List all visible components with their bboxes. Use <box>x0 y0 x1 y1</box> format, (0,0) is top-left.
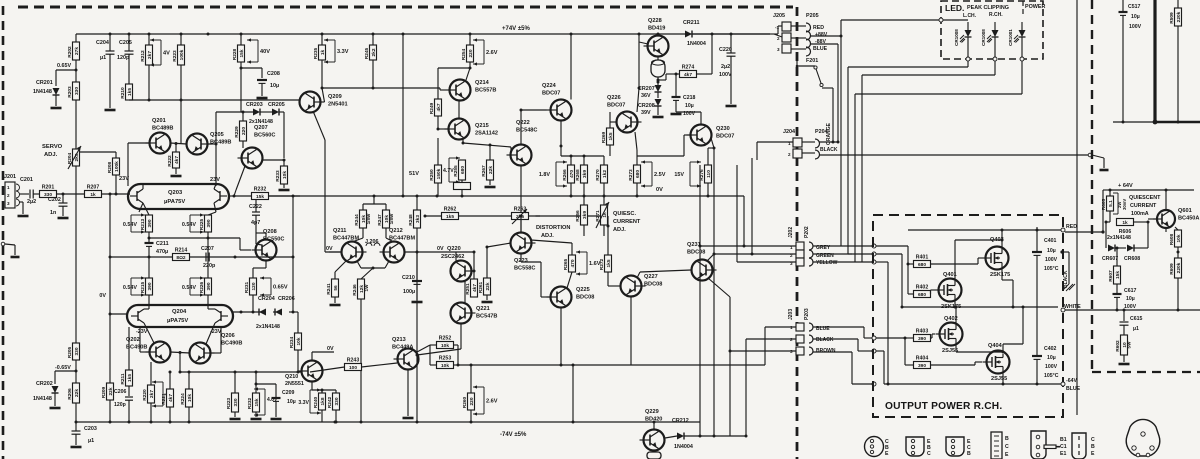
svg-text:220p: 220p <box>203 263 216 269</box>
svg-text:BC548C: BC548C <box>516 128 537 134</box>
wire <box>1165 229 1167 233</box>
junction <box>607 225 610 228</box>
resistor R212 <box>146 45 153 65</box>
wire <box>62 206 64 216</box>
svg-text:P205: P205 <box>806 13 819 19</box>
svg-text:C615: C615 <box>1130 316 1143 322</box>
transistor Q201 <box>150 133 171 154</box>
wire <box>1177 278 1179 310</box>
0V bus wire <box>269 195 745 197</box>
wire <box>109 54 111 108</box>
transistor Q213 <box>398 349 419 370</box>
svg-text:2µ2: 2µ2 <box>721 64 730 70</box>
svg-text:ADJ.: ADJ. <box>541 233 554 239</box>
chassis ground symbol <box>1063 284 1075 291</box>
capacitor C401 symbol <box>1032 251 1042 253</box>
svg-text:10µ: 10µ <box>1047 248 1056 254</box>
wire <box>486 295 488 300</box>
svg-text:R.CH.: R.CH. <box>989 12 1003 18</box>
wire <box>373 196 375 204</box>
wire <box>489 145 491 160</box>
capacitor C206 symbol <box>125 396 133 398</box>
resistor R262 <box>442 213 459 220</box>
svg-text:B: B <box>967 451 971 457</box>
wire <box>283 112 285 158</box>
resistor R225 <box>205 215 212 232</box>
svg-text:10µ: 10µ <box>685 103 694 109</box>
junction <box>75 421 78 424</box>
svg-text:2.6V: 2.6V <box>486 399 498 405</box>
svg-text:3k9: 3k9 <box>582 211 588 219</box>
junction <box>743 245 746 248</box>
svg-text:0.65V: 0.65V <box>57 63 71 69</box>
junction <box>180 33 183 36</box>
capacitor C402 symbol <box>1032 355 1042 357</box>
wire <box>335 261 346 272</box>
base wire <box>110 313 127 315</box>
svg-text:BLUE: BLUE <box>813 46 828 52</box>
wire <box>570 156 572 165</box>
WHITE output wire <box>902 306 1058 308</box>
wire <box>265 233 267 240</box>
svg-text:2x1N4148: 2x1N4148 <box>1107 235 1131 241</box>
collector wire <box>236 166 245 190</box>
junction <box>707 195 710 198</box>
junction <box>252 311 255 314</box>
svg-text:Q222: Q222 <box>516 120 530 126</box>
base wire <box>640 270 691 272</box>
wire <box>255 412 257 417</box>
dual transistor Q204 uPA75V <box>127 305 233 327</box>
wire <box>310 367 345 372</box>
ground <box>279 189 290 192</box>
resistor R246 <box>358 279 365 299</box>
svg-text:R251: R251 <box>465 283 471 295</box>
resistor R260 <box>468 393 475 410</box>
wire <box>608 285 621 287</box>
svg-text:BDC07: BDC07 <box>716 134 734 140</box>
wire <box>802 141 815 143</box>
svg-text:0V: 0V <box>326 246 333 252</box>
wire <box>609 112 611 128</box>
junction <box>461 195 464 198</box>
junction <box>109 313 112 316</box>
wire <box>1122 15 1124 122</box>
resistor R268 <box>581 165 588 183</box>
ground <box>50 407 61 410</box>
junction <box>729 350 732 353</box>
diode CR607 <box>1108 245 1115 252</box>
transistor Q230 <box>691 125 712 146</box>
svg-text:390: 390 <box>147 282 153 290</box>
voltage 40V <box>257 40 259 62</box>
wire <box>208 308 215 310</box>
gate wire Q404 <box>931 364 976 366</box>
svg-text:R256: R256 <box>575 210 581 222</box>
junction <box>240 67 243 70</box>
svg-text:R206: R206 <box>67 388 73 400</box>
svg-text:3.3V: 3.3V <box>298 400 309 406</box>
transistor Q205 <box>187 134 208 155</box>
transistor Q228 <box>648 36 669 57</box>
potentiometer R271 <box>601 205 608 225</box>
wire <box>639 42 648 44</box>
svg-text:R209: R209 <box>101 386 107 398</box>
svg-text:2SK175: 2SK175 <box>990 272 1010 278</box>
svg-text:Q212: Q212 <box>389 228 403 234</box>
resistor R249 <box>435 99 442 116</box>
potentiometer R263 <box>512 213 529 220</box>
svg-text:E: E <box>1091 451 1095 457</box>
wire <box>583 156 585 165</box>
svg-text:390: 390 <box>918 363 926 369</box>
svg-text:POWER: POWER <box>1025 4 1045 10</box>
junction <box>1036 229 1039 232</box>
svg-text:C: C <box>1005 444 1009 450</box>
long vertical wire <box>1076 0 1078 415</box>
svg-text:2k7: 2k7 <box>149 390 155 398</box>
junction <box>699 435 702 438</box>
junction <box>148 237 151 240</box>
wire <box>256 244 262 245</box>
junction <box>207 237 210 240</box>
resistor R215 <box>146 278 153 295</box>
GREY gate feed <box>876 245 908 247</box>
junction <box>128 421 131 424</box>
svg-text:4k7: 4k7 <box>174 156 180 164</box>
junction <box>638 33 641 36</box>
wire <box>75 166 77 343</box>
wire <box>470 410 472 422</box>
package 2 <box>906 437 924 456</box>
capacitor C401 <box>1036 227 1038 251</box>
svg-text:3.3V: 3.3V <box>337 49 349 55</box>
capacitor C220 symbol <box>727 52 736 54</box>
svg-text:1/8W: 1/8W <box>389 213 394 224</box>
wire <box>603 225 605 236</box>
right channel dashed border <box>1091 0 1093 372</box>
svg-text:CR211: CR211 <box>683 20 699 26</box>
wire <box>324 140 326 252</box>
capacitor C615 <box>1123 310 1125 321</box>
svg-text:CR204: CR204 <box>258 296 275 302</box>
voltage 0.54V <box>130 215 132 232</box>
v <box>309 390 311 413</box>
svg-text:10µ: 10µ <box>270 83 279 89</box>
junction <box>751 253 754 256</box>
junction <box>699 245 702 248</box>
wire <box>311 382 313 391</box>
svg-text:C617: C617 <box>1124 288 1137 294</box>
gate wire Q403 <box>931 263 979 265</box>
wire <box>261 68 263 78</box>
capacitor C210 symbol <box>412 280 422 282</box>
resistor R223 <box>178 45 185 65</box>
svg-text:J202: J202 <box>788 227 794 238</box>
svg-text:Q204: Q204 <box>172 309 187 315</box>
package 5 <box>1031 431 1046 459</box>
wire <box>240 62 242 112</box>
wire <box>711 138 714 148</box>
junction <box>955 306 958 309</box>
wire <box>33 193 38 195</box>
transistor Q231 <box>692 260 713 281</box>
wire <box>229 195 234 197</box>
top board dashed border <box>18 6 793 9</box>
wire <box>692 33 770 35</box>
svg-text:105°C: 105°C <box>1044 266 1059 272</box>
junction <box>713 435 716 438</box>
resistor R232 <box>252 193 269 200</box>
junction <box>1177 251 1180 254</box>
wire <box>404 251 474 253</box>
svg-text:220k: 220k <box>1176 262 1182 273</box>
svg-text:2N5551: 2N5551 <box>285 381 304 387</box>
wire <box>321 60 323 88</box>
svg-text:CR607: CR607 <box>1102 256 1118 262</box>
junction <box>188 421 191 424</box>
wire <box>487 243 511 247</box>
svg-text:R223: R223 <box>226 397 232 409</box>
wire <box>75 434 77 445</box>
svg-text:C208: C208 <box>267 71 280 77</box>
junction <box>520 215 523 218</box>
svg-text:R265: R265 <box>563 258 569 270</box>
resistor R220 <box>148 385 155 403</box>
wire <box>75 403 77 431</box>
resistor R211 <box>126 370 133 386</box>
wire <box>279 111 284 113</box>
svg-text:27k: 27k <box>74 47 80 55</box>
wire <box>261 83 263 96</box>
svg-text:-74V ±5%: -74V ±5% <box>500 432 527 438</box>
junction <box>638 87 641 90</box>
junction <box>360 421 363 424</box>
wire <box>255 200 257 213</box>
junction <box>169 371 172 374</box>
svg-text:2.6V: 2.6V <box>486 50 498 56</box>
wire <box>143 203 149 215</box>
junction <box>109 421 112 424</box>
main board right dashed border <box>796 7 799 459</box>
wire <box>239 238 241 250</box>
svg-text:BLACK: BLACK <box>816 337 834 343</box>
output thick bar <box>1153 0 1156 122</box>
YELLOW feed <box>876 261 888 263</box>
junction <box>1177 121 1180 124</box>
svg-text:Q601: Q601 <box>1178 208 1192 214</box>
junction <box>437 128 440 131</box>
svg-text:22k: 22k <box>74 389 80 397</box>
capacitor C517 symbol <box>1119 11 1128 13</box>
svg-text:4k7: 4k7 <box>436 103 442 111</box>
wire <box>252 295 254 312</box>
svg-text:4.7V: 4.7V <box>443 168 454 174</box>
wire <box>470 365 472 393</box>
wire <box>102 193 131 195</box>
wire <box>967 44 969 57</box>
junction <box>436 195 439 198</box>
junction <box>904 337 907 340</box>
wire <box>283 184 285 188</box>
resistor R247 <box>383 210 390 228</box>
wire <box>115 175 117 194</box>
junction <box>675 73 678 76</box>
diode CR204 <box>259 309 266 316</box>
bracket 2W 30mV <box>1117 193 1119 214</box>
svg-text:R273: R273 <box>628 169 634 181</box>
svg-text:CR208: CR208 <box>638 103 655 109</box>
junction <box>242 111 245 114</box>
svg-text:R201: R201 <box>42 185 55 191</box>
wire <box>144 323 154 343</box>
junction <box>179 371 182 374</box>
svg-text:105°C: 105°C <box>1044 373 1059 379</box>
svg-text:R224: R224 <box>180 393 186 405</box>
junction <box>570 195 573 198</box>
svg-text:R266: R266 <box>562 169 568 181</box>
wire <box>1113 121 1155 123</box>
junction <box>907 263 910 266</box>
wire <box>140 351 150 353</box>
wire <box>908 263 914 265</box>
junction <box>469 67 472 70</box>
51V rail wire <box>402 34 404 196</box>
svg-text:1: 1 <box>7 185 10 190</box>
wire <box>234 412 236 417</box>
wire <box>653 422 655 429</box>
svg-text:3k9: 3k9 <box>582 170 588 178</box>
svg-text:22k: 22k <box>488 166 494 174</box>
dual transistor Q203 uPA75V <box>128 184 229 209</box>
resistor R251 <box>471 279 478 297</box>
svg-text:DISTORTION: DISTORTION <box>536 225 570 231</box>
v <box>689 162 691 186</box>
transistor Q206 <box>190 343 211 364</box>
svg-text:BC447BM: BC447BM <box>333 236 359 242</box>
wire BLACK <box>872 349 876 353</box>
resistor R222 <box>173 152 180 168</box>
wire <box>313 111 325 140</box>
junction <box>62 193 65 196</box>
svg-text:C206: C206 <box>114 389 127 395</box>
wire <box>55 370 76 372</box>
svg-text:Q210: Q210 <box>285 374 298 380</box>
resistor R269 <box>607 128 614 145</box>
junction <box>148 256 151 259</box>
junction <box>148 99 151 102</box>
wire <box>1175 227 1178 230</box>
svg-text:2µ2: 2µ2 <box>27 199 36 205</box>
svg-text:C1: C1 <box>1060 444 1067 450</box>
junction <box>75 370 78 373</box>
svg-text:R213: R213 <box>140 218 146 230</box>
ground <box>412 301 423 304</box>
resistor R224 <box>186 389 193 407</box>
resistor R228 <box>238 45 245 62</box>
svg-text:10k: 10k <box>187 394 193 402</box>
svg-text:1N4148: 1N4148 <box>33 89 52 95</box>
wire <box>335 390 337 393</box>
wire <box>700 245 796 247</box>
wire <box>1148 218 1157 220</box>
wire <box>372 60 374 88</box>
transistor Q226 <box>617 112 638 133</box>
wire <box>819 141 838 143</box>
svg-text:SERVO: SERVO <box>42 144 63 150</box>
wire <box>62 194 64 203</box>
svg-text:Q225: Q225 <box>576 287 590 293</box>
LED CR1008 left <box>967 22 969 30</box>
RED wire <box>1065 231 1103 233</box>
svg-text:L.CH.: L.CH. <box>963 13 977 19</box>
wire <box>469 62 471 68</box>
svg-text:R246: R246 <box>352 284 358 296</box>
svg-text:Q208: Q208 <box>263 229 277 235</box>
svg-text:R605: R605 <box>1101 198 1107 210</box>
junction <box>416 354 419 357</box>
svg-text:4k7: 4k7 <box>472 284 478 292</box>
drain wire Q404 <box>1002 344 1004 352</box>
wire <box>240 249 251 251</box>
svg-text:680: 680 <box>918 292 926 298</box>
drain wire Q401 <box>954 240 956 282</box>
0V feedback wire <box>129 99 300 101</box>
svg-text:100mA: 100mA <box>1131 211 1149 217</box>
transistor inside Q203 left <box>136 191 138 201</box>
label -64V <box>1061 382 1065 386</box>
svg-text:2SK175: 2SK175 <box>941 304 961 310</box>
junction <box>713 253 716 256</box>
svg-text:C202: C202 <box>48 197 61 203</box>
svg-text:PEAK CLIPPING: PEAK CLIPPING <box>967 5 1009 11</box>
wire <box>208 212 216 215</box>
wire -88V <box>810 43 838 45</box>
wire <box>188 407 190 422</box>
resistor R208 <box>113 158 120 175</box>
wire <box>707 183 709 196</box>
ground <box>726 105 737 108</box>
svg-text:0V: 0V <box>437 246 444 252</box>
svg-text:BDC07: BDC07 <box>607 103 625 109</box>
capacitor C615 symbol <box>1120 321 1129 323</box>
wire <box>461 180 463 183</box>
wire <box>1122 0 1124 12</box>
ground <box>271 418 282 421</box>
wire <box>636 150 638 165</box>
transistor Q202 <box>150 342 171 363</box>
wire <box>700 112 702 125</box>
svg-text:BROWN: BROWN <box>816 348 836 354</box>
svg-text:R207: R207 <box>87 185 100 191</box>
ground <box>1119 363 1130 366</box>
svg-text:680: 680 <box>918 262 926 268</box>
wire <box>1109 211 1111 222</box>
wire <box>603 156 605 165</box>
ground <box>257 97 268 100</box>
BLUE gate feed <box>872 336 876 340</box>
junction <box>657 81 660 84</box>
svg-text:Q215: Q215 <box>475 123 489 129</box>
wire <box>361 267 385 269</box>
junction <box>416 421 419 424</box>
capacitor C208 symbol <box>257 79 267 81</box>
svg-text:BC489B: BC489B <box>152 126 173 132</box>
voltage 2.5V <box>651 162 653 186</box>
wire <box>637 88 639 112</box>
thermal breaker on Q229 <box>647 452 661 459</box>
svg-text:100V: 100V <box>1045 364 1058 370</box>
